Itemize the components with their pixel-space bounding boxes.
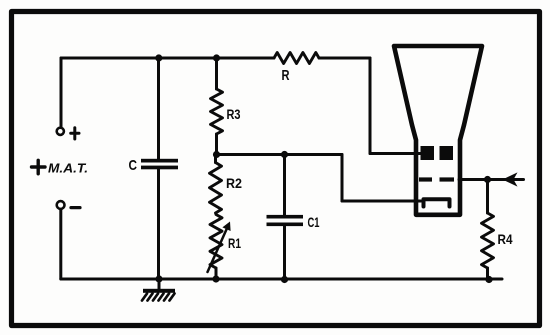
wire R4 bottom lead [486, 268, 489, 280]
capacitor C bottom plate [141, 166, 178, 170]
ground hatching [142, 294, 175, 301]
junction bottom bus / C and ground [155, 275, 162, 282]
wire bottom bus [61, 278, 502, 281]
wire cathode feed into tube [342, 200, 421, 203]
R1 wiper arrow shaft [208, 226, 229, 272]
wire capacitor C bottom lead [157, 169, 160, 279]
wire ground stub [158, 279, 161, 289]
junction top bus / C [155, 54, 162, 61]
svg-text:R1: R1 [228, 235, 241, 251]
wire C1 bottom lead [283, 226, 286, 279]
wire top bus right of R [319, 57, 370, 60]
junction mid bus / C1 [281, 151, 288, 158]
tube anode square right [440, 146, 454, 160]
capacitor C1 top plate [267, 215, 304, 219]
svg-text:R3: R3 [227, 106, 241, 122]
terminal - circle [57, 201, 65, 209]
resistor R1 (variable) [210, 215, 222, 269]
svg-text:C: C [129, 157, 138, 174]
wire R3 top lead [215, 58, 218, 89]
wire vertical from - terminal [59, 209, 62, 279]
ground bar [143, 289, 175, 293]
svg-text:R4: R4 [498, 231, 513, 247]
tube grid dash right [440, 177, 455, 181]
minus sign at - terminal [71, 206, 80, 209]
wire grid output to arrow [459, 178, 524, 181]
R1 wiper arrowhead [222, 222, 230, 232]
wire R4 top lead [486, 180, 489, 214]
wire vertical drop to cathode level [341, 155, 344, 202]
junction grid wire / R4 [484, 176, 491, 183]
wire R2 top lead [214, 155, 217, 163]
wire capacitor C top lead [157, 58, 160, 159]
capacitor C1 bottom plate [267, 223, 304, 227]
wire vertical to + terminal [60, 58, 63, 127]
svg-text:R2: R2 [226, 175, 242, 191]
junction bottom bus / R4 [485, 276, 492, 283]
wire anode feed into tube [370, 152, 421, 155]
svg-text:C1: C1 [308, 214, 320, 230]
wire mid bus from R3 junction [217, 153, 343, 156]
photocell tube envelope [394, 46, 482, 215]
wire R3 bottom lead [215, 134, 218, 155]
junction top bus / R3 [213, 54, 220, 61]
junction bottom bus / C1 [281, 276, 288, 283]
wire R1 bottom lead [215, 268, 218, 279]
plus sign at + terminal [71, 128, 79, 139]
tube anode square left [421, 146, 435, 160]
resistor R [274, 53, 319, 64]
junction bottom bus / R1 [212, 275, 219, 282]
plus sign at M.A.T. label [32, 160, 46, 174]
wire C1 top lead [283, 155, 286, 215]
tube grid dash left [419, 177, 432, 181]
resistor R4 [482, 213, 494, 268]
output arrowhead [503, 172, 518, 186]
capacitor C top plate [141, 159, 178, 163]
wire anode vertical from top bus [369, 58, 372, 154]
terminal + circle [57, 128, 64, 135]
tube cathode element [424, 199, 450, 206]
wire top bus left of R [61, 57, 274, 60]
svg-text:R: R [282, 67, 290, 84]
svg-text:M.A.T.: M.A.T. [48, 161, 88, 176]
junction mid bus / R3-R2 [213, 151, 220, 158]
resistor R2 [210, 163, 222, 214]
resistor R3 [211, 89, 223, 134]
